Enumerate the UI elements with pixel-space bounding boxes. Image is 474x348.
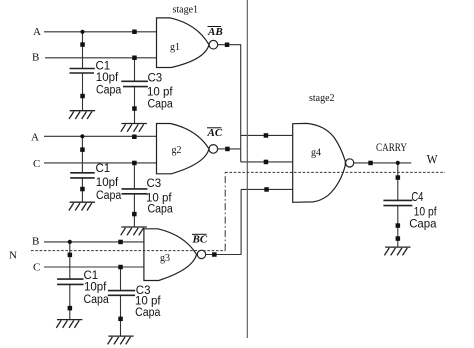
wire g4 output CARRY	[354, 162, 412, 164]
svg-text:N: N	[9, 249, 17, 261]
svg-text:Capa: Capa	[148, 99, 174, 111]
svg-text:stage1: stage1	[173, 4, 199, 15]
svg-text:C3: C3	[147, 178, 162, 190]
bubble g1	[209, 40, 218, 49]
junction square mid row2	[80, 147, 85, 152]
junction square below C3 row1	[132, 106, 137, 111]
junction square below C4 a	[396, 223, 401, 228]
svg-text:Capa: Capa	[96, 190, 122, 202]
svg-text:10 pf: 10 pf	[147, 87, 173, 99]
junction square A row1	[132, 30, 137, 35]
wire input C row3	[44, 266, 144, 268]
svg-text:10pf: 10pf	[96, 72, 119, 84]
junction square below C4 b	[396, 236, 401, 241]
nand gate g3	[144, 229, 197, 281]
svg-text:10 pf: 10 pf	[135, 296, 161, 308]
junction square C/C3 row3	[118, 265, 123, 270]
junction square below C3 row3	[118, 317, 123, 322]
wire vertical A to C1 row2	[81, 136, 83, 172]
svg-text:CARRY: CARRY	[376, 142, 408, 154]
svg-text:C: C	[33, 158, 40, 170]
wire vertical A to C1 row1	[82, 32, 84, 68]
wire C3 to ground row2	[133, 194, 135, 227]
junction square C/C3 row2	[132, 161, 137, 166]
wire g1 output	[218, 45, 241, 162]
junction square g4 output	[368, 161, 373, 166]
junction square g4 input3	[264, 187, 269, 192]
junction dot A/C1 row2	[80, 134, 84, 138]
wire vertical B to C1 row3	[69, 242, 71, 279]
svg-text:10pf: 10pf	[84, 282, 107, 294]
wire vertical C to C3 row3	[120, 267, 122, 290]
capacitor C1 row1 plates	[70, 68, 95, 70]
nand gate g4	[293, 123, 346, 202]
svg-text:AB: AB	[207, 26, 223, 38]
junction square B/C3 row1	[132, 56, 137, 61]
junction square above C4	[396, 175, 401, 180]
junction dot W node	[396, 161, 400, 165]
bubble g2	[209, 145, 218, 154]
wire input A row2	[44, 135, 157, 137]
svg-text:BC: BC	[192, 233, 208, 245]
ground row3 C1	[56, 320, 82, 328]
wire C4 to ground	[397, 206, 399, 247]
stage separator vertical line	[246, 0, 248, 338]
svg-text:B: B	[32, 52, 39, 64]
junction square mid row1	[80, 42, 85, 47]
junction square B row3	[118, 240, 123, 245]
capacitor C1 row2 plates	[70, 172, 95, 174]
capacitor C3 row2 plates	[122, 188, 148, 190]
capacitor C1 row3 plates	[57, 278, 83, 280]
wire input C row2	[44, 162, 157, 164]
junction dot B/C1 row3	[68, 240, 72, 244]
wire g4 input2	[241, 161, 293, 163]
svg-text:Capa: Capa	[96, 85, 122, 97]
wire vertical B to C3 row1	[134, 58, 136, 81]
wire g3 output	[206, 189, 241, 254]
dash-dot net N vertical	[224, 172, 226, 250]
svg-text:A: A	[33, 26, 41, 38]
svg-text:C: C	[33, 262, 40, 274]
svg-text:g2: g2	[172, 145, 182, 156]
junction square g3 output	[212, 252, 217, 256]
svg-text:g4: g4	[311, 148, 321, 159]
svg-text:g3: g3	[160, 253, 170, 264]
svg-text:Capa: Capa	[135, 307, 161, 319]
dashed net N horizontal high	[225, 171, 445, 173]
wire g4 input1	[241, 134, 293, 136]
ground row2 C1	[69, 202, 95, 210]
svg-text:C1: C1	[84, 270, 99, 282]
ground row2 C3	[121, 227, 147, 235]
nand gate g1	[157, 18, 210, 68]
junction square A row2	[132, 135, 137, 140]
bubble g3	[197, 250, 205, 258]
svg-text:Capa: Capa	[84, 294, 110, 306]
ground row3 C3	[108, 336, 134, 344]
svg-text:C3: C3	[148, 72, 163, 84]
junction square mid row3	[68, 253, 73, 258]
ground row1 C3	[121, 124, 147, 132]
wire g2 output	[218, 148, 241, 150]
wire C1 to ground row1	[82, 74, 84, 111]
wire input B row1	[45, 57, 157, 59]
ground C4	[384, 247, 410, 255]
bubble g4	[346, 159, 354, 167]
wire input B row3	[44, 241, 144, 243]
wire C3 to ground row1	[134, 87, 136, 123]
capacitor C3 row1 plates	[121, 80, 148, 82]
svg-text:AC: AC	[207, 127, 223, 139]
junction dot A/C1 row1	[80, 30, 84, 34]
ground row1 C1	[69, 111, 95, 119]
capacitor C3 row3 plates	[108, 290, 135, 292]
wire vertical C to C3 row2	[133, 163, 135, 188]
svg-text:stage2: stage2	[309, 93, 335, 104]
svg-text:C1: C1	[96, 61, 111, 73]
wire C1 to ground row2	[81, 179, 83, 203]
junction square g4 input1	[264, 133, 269, 138]
svg-text:Capa: Capa	[148, 204, 174, 216]
junction square below C3 row2	[132, 212, 137, 217]
dashed net N horizontal low	[31, 250, 225, 252]
svg-text:C1: C1	[96, 163, 111, 175]
svg-text:W: W	[427, 151, 438, 166]
junction square g4 input2	[264, 160, 269, 165]
svg-text:g1: g1	[170, 42, 180, 53]
svg-text:A: A	[31, 131, 39, 143]
wire W node to C4	[397, 163, 399, 200]
svg-text:Capa: Capa	[409, 217, 437, 231]
wire g4 input3	[241, 188, 293, 190]
junction square below C1 row1	[80, 94, 85, 99]
svg-text:C4: C4	[411, 189, 423, 204]
capacitor C4 plates	[383, 199, 412, 201]
wire C1 to ground row3	[69, 285, 71, 320]
junction square g2 output	[225, 147, 230, 152]
junction square below C1 row2	[80, 187, 85, 192]
junction square below C1 row3	[68, 306, 73, 311]
nand gate g2	[157, 124, 210, 174]
wire C3 to ground row3	[120, 296, 122, 336]
svg-text:10pf: 10pf	[96, 177, 119, 189]
junction square g1 output	[225, 43, 230, 48]
svg-text:B: B	[32, 235, 39, 247]
wire input A row1	[44, 31, 157, 33]
